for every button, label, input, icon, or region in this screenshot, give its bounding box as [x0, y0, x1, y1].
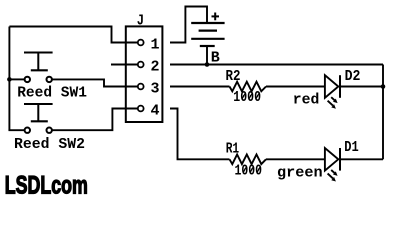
svg-text:LSDLcom: LSDLcom — [5, 171, 88, 199]
LED D1 light arrows — [328, 170, 338, 182]
svg-text:R1: R1 — [226, 140, 240, 157]
pushbutton reed switch SW2 — [24, 104, 53, 133]
wire R1 to LED D1 — [266, 158, 325, 160]
pin 2 circle — [138, 62, 144, 68]
battery plus sign — [212, 13, 220, 21]
wire bus to SW1 left terminal — [9, 78, 24, 80]
LED D1 cathode bar — [339, 148, 341, 171]
wire SW1 right terminal to pin 3 — [52, 79, 137, 86]
wire left vertical bus — [8, 27, 10, 131]
wire SW2 right terminal to pin 4 — [52, 109, 137, 131]
wire right vertical bus — [382, 65, 384, 160]
wire pin 2 row to right bus — [170, 64, 383, 66]
wire R2 to LED D2 — [266, 86, 325, 88]
svg-text:B: B — [211, 50, 220, 67]
resistor R1 zigzag — [230, 155, 267, 165]
node B junction dot — [205, 62, 210, 67]
wire top-left from bus to pin 1 — [9, 27, 137, 43]
svg-text:1: 1 — [150, 37, 159, 54]
svg-text:R2: R2 — [226, 68, 241, 85]
svg-text:red: red — [293, 92, 320, 109]
junction dot D2 to bus — [381, 84, 386, 89]
connector J body — [126, 26, 163, 122]
wire pin 1 to battery positive — [170, 7, 207, 43]
pushbutton reed switch SW1 — [24, 53, 53, 83]
wire bus elbow to SW2 left terminal — [9, 128, 24, 131]
svg-text:J: J — [137, 12, 144, 29]
LED D2 light arrows — [328, 97, 338, 109]
wire pin 4 down to green row — [170, 109, 230, 160]
svg-text:green: green — [277, 165, 323, 182]
resistor R2 zigzag — [230, 82, 267, 92]
svg-text:Reed SW2: Reed SW2 — [14, 136, 85, 153]
svg-text:4: 4 — [150, 103, 159, 120]
battery B plates — [191, 23, 224, 46]
svg-text:D1: D1 — [344, 139, 359, 156]
svg-text:D2: D2 — [345, 68, 361, 85]
pin 3 circle — [138, 84, 144, 90]
pin 4 circle — [138, 106, 144, 112]
pin 1 circle — [138, 40, 144, 46]
svg-text:2: 2 — [150, 59, 159, 76]
wire LED D1 to right bus — [341, 158, 383, 160]
LED D2 cathode bar — [339, 75, 341, 98]
wire pin 3 row to R2 — [170, 86, 230, 88]
wire LED D2 to right bus — [341, 86, 383, 88]
svg-text:3: 3 — [150, 81, 159, 98]
LED D1 triangle — [325, 148, 338, 171]
wire pin 2 left stub — [111, 64, 137, 66]
junction dot at SW1 tap — [7, 77, 12, 82]
svg-text:Reed SW1: Reed SW1 — [17, 84, 87, 101]
LED D2 triangle — [325, 75, 338, 98]
wire battery negative stem to node B — [206, 46, 208, 65]
